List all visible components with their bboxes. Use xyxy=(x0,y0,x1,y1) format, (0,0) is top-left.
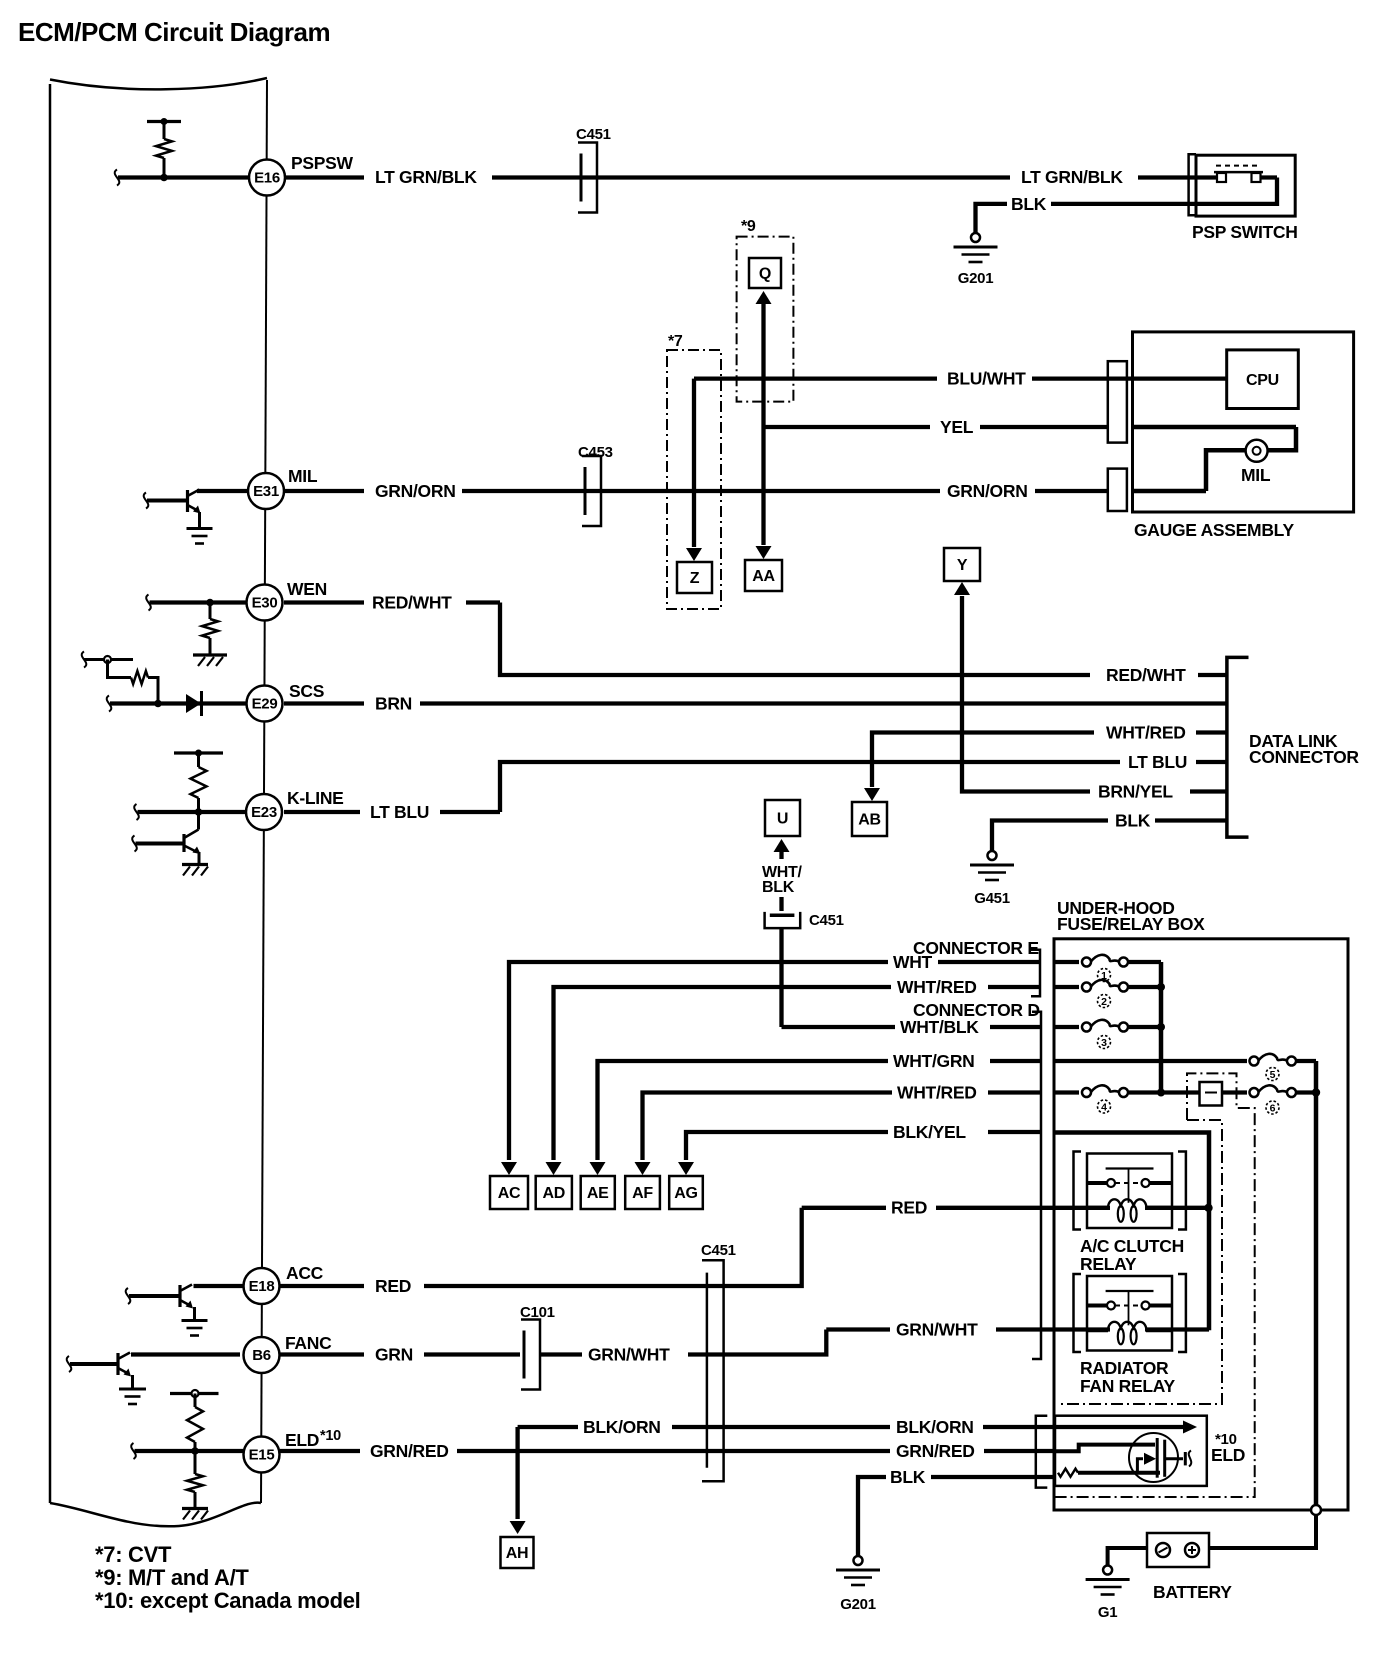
svg-text:ACC: ACC xyxy=(286,1263,324,1283)
svg-text:BLK: BLK xyxy=(1115,811,1151,831)
svg-text:*10: except Canada model: *10: except Canada model xyxy=(95,1588,360,1613)
svg-text:CONNECTOR: CONNECTOR xyxy=(1249,747,1359,767)
svg-text:RED/WHT: RED/WHT xyxy=(372,593,452,613)
svg-text:B6: B6 xyxy=(252,1347,271,1364)
svg-text:E30: E30 xyxy=(252,595,278,612)
svg-text:*7: CVT: *7: CVT xyxy=(95,1542,172,1567)
svg-text:G201: G201 xyxy=(958,270,994,287)
svg-text:RED: RED xyxy=(375,1276,411,1296)
svg-text:LT GRN/BLK: LT GRN/BLK xyxy=(1021,167,1123,187)
svg-text:6: 6 xyxy=(1270,1102,1276,1114)
svg-text:AH: AH xyxy=(506,1545,529,1562)
svg-text:WEN: WEN xyxy=(287,579,327,599)
svg-text:PSP SWITCH: PSP SWITCH xyxy=(1192,222,1298,242)
svg-text:WHT/GRN: WHT/GRN xyxy=(893,1051,975,1071)
svg-text:AC: AC xyxy=(498,1185,521,1202)
svg-text:A/C CLUTCH: A/C CLUTCH xyxy=(1080,1236,1184,1256)
svg-text:ELD: ELD xyxy=(1211,1445,1245,1465)
svg-text:5: 5 xyxy=(1270,1069,1276,1081)
svg-text:GRN: GRN xyxy=(375,1345,413,1365)
svg-text:WHT/RED: WHT/RED xyxy=(897,1083,977,1103)
svg-text:GRN/RED: GRN/RED xyxy=(370,1441,449,1461)
svg-text:LT BLU: LT BLU xyxy=(1128,752,1187,772)
svg-text:GRN/WHT: GRN/WHT xyxy=(588,1345,670,1365)
svg-text:GRN/RED: GRN/RED xyxy=(896,1441,975,1461)
svg-text:C451: C451 xyxy=(701,1242,736,1259)
svg-text:BLK: BLK xyxy=(762,879,795,896)
svg-text:WHT/RED: WHT/RED xyxy=(1106,723,1186,743)
svg-text:AF: AF xyxy=(632,1185,653,1202)
svg-text:BLK/ORN: BLK/ORN xyxy=(896,1417,974,1437)
svg-text:RED/WHT: RED/WHT xyxy=(1106,665,1186,685)
svg-text:ECM/PCM Circuit Diagram: ECM/PCM Circuit Diagram xyxy=(18,17,330,47)
svg-text:Q: Q xyxy=(759,266,771,283)
svg-text:GAUGE ASSEMBLY: GAUGE ASSEMBLY xyxy=(1134,520,1294,540)
svg-text:2: 2 xyxy=(1101,996,1107,1008)
svg-text:G201: G201 xyxy=(840,1596,876,1613)
svg-text:*10: *10 xyxy=(320,1428,341,1444)
svg-text:Z: Z xyxy=(690,570,700,587)
svg-text:CPU: CPU xyxy=(1246,372,1279,389)
svg-text:C453: C453 xyxy=(578,444,613,461)
svg-text:*7: *7 xyxy=(668,333,683,350)
svg-text:AG: AG xyxy=(674,1185,697,1202)
svg-text:LT GRN/BLK: LT GRN/BLK xyxy=(375,167,477,187)
svg-text:E23: E23 xyxy=(251,804,277,821)
svg-text:C101: C101 xyxy=(520,1304,555,1321)
svg-text:BLK/ORN: BLK/ORN xyxy=(583,1417,661,1437)
svg-text:E18: E18 xyxy=(249,1278,275,1295)
svg-text:*9: *9 xyxy=(741,218,756,235)
svg-text:FUSE/RELAY BOX: FUSE/RELAY BOX xyxy=(1057,914,1205,934)
svg-text:GRN/ORN: GRN/ORN xyxy=(375,481,456,501)
svg-text:U: U xyxy=(777,811,788,828)
svg-text:BLK/YEL: BLK/YEL xyxy=(893,1122,966,1142)
svg-text:AE: AE xyxy=(587,1185,609,1202)
svg-text:BATTERY: BATTERY xyxy=(1153,1582,1232,1602)
svg-text:GRN/WHT: GRN/WHT xyxy=(896,1320,978,1340)
svg-text:BRN/YEL: BRN/YEL xyxy=(1098,782,1173,802)
svg-text:YEL: YEL xyxy=(940,417,974,437)
svg-text:AA: AA xyxy=(752,568,775,585)
svg-text:AD: AD xyxy=(543,1185,566,1202)
svg-text:CONNECTOR E: CONNECTOR E xyxy=(913,938,1039,958)
svg-text:Y: Y xyxy=(957,557,968,574)
svg-text:GRN/ORN: GRN/ORN xyxy=(947,481,1028,501)
svg-text:G1: G1 xyxy=(1098,1604,1117,1621)
svg-text:E15: E15 xyxy=(249,1447,275,1464)
svg-text:C451: C451 xyxy=(809,912,844,929)
svg-text:PSPSW: PSPSW xyxy=(291,153,353,173)
svg-text:RED: RED xyxy=(891,1198,927,1218)
svg-text:WHT/BLK: WHT/BLK xyxy=(900,1017,979,1037)
svg-text:*9: M/T and A/T: *9: M/T and A/T xyxy=(95,1565,249,1590)
svg-text:AB: AB xyxy=(858,812,881,829)
svg-text:E29: E29 xyxy=(252,696,278,713)
svg-text:MIL: MIL xyxy=(288,466,318,486)
svg-text:LT BLU: LT BLU xyxy=(370,802,429,822)
svg-text:BLK: BLK xyxy=(1011,194,1047,214)
svg-text:4: 4 xyxy=(1101,1101,1107,1113)
svg-text:RADIATOR: RADIATOR xyxy=(1080,1358,1169,1378)
svg-text:3: 3 xyxy=(1101,1037,1107,1049)
svg-text:FANC: FANC xyxy=(285,1333,332,1353)
svg-text:RELAY: RELAY xyxy=(1080,1254,1137,1274)
svg-text:CONNECTOR D: CONNECTOR D xyxy=(913,1000,1040,1020)
svg-text:E16: E16 xyxy=(254,170,280,187)
svg-text:BRN: BRN xyxy=(375,694,412,714)
svg-text:BLK: BLK xyxy=(890,1467,926,1487)
svg-text:E31: E31 xyxy=(253,483,279,500)
svg-text:FAN RELAY: FAN RELAY xyxy=(1080,1376,1175,1396)
svg-text:BLU/WHT: BLU/WHT xyxy=(947,369,1026,389)
svg-text:G451: G451 xyxy=(974,890,1010,907)
svg-text:WHT/RED: WHT/RED xyxy=(897,977,977,997)
svg-text:ELD: ELD xyxy=(285,1430,319,1450)
svg-text:C451: C451 xyxy=(576,126,611,143)
svg-text:K-LINE: K-LINE xyxy=(287,788,344,808)
svg-text:SCS: SCS xyxy=(289,681,324,701)
svg-text:MIL: MIL xyxy=(1241,465,1271,485)
